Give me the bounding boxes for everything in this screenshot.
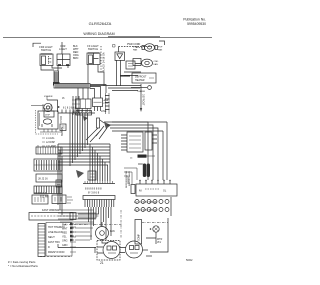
- lamp L1: [57, 54, 70, 66]
- svg-text:FAN: FAN: [154, 63, 159, 66]
- svg-text:FAN: FAN: [133, 49, 138, 52]
- dashed enclosure around dispenser block: [36, 110, 59, 134]
- bottom wire: [58, 244, 96, 248]
- small box B4: [60, 124, 66, 131]
- svg-text:BLACK 14-16 GA: BLACK 14-16 GA: [103, 52, 106, 72]
- connector pins column: [73, 96, 79, 115]
- wire color legend column: [73, 45, 79, 60]
- svg-text:BLK: BLK: [62, 224, 67, 227]
- wire from S2 down: [88, 65, 104, 87]
- corner wires under board: [124, 168, 137, 184]
- wire between motors: [120, 248, 126, 253]
- small box B5 lower left: [56, 180, 62, 187]
- control board U1: [127, 132, 152, 152]
- defrost thermostat: [131, 87, 147, 89]
- svg-text:LINE: LINE: [101, 110, 107, 113]
- svg-text:REFRIGERATOR: REFRIGERATOR: [125, 170, 128, 188]
- connector CN3 pin strip: [83, 181, 115, 207]
- svg-text:COMP: COMP: [139, 234, 141, 241]
- dashed zone separator: [100, 46, 102, 74]
- svg-text:AUG: AUG: [44, 108, 49, 111]
- circled terminal row 1: [134, 200, 169, 205]
- dash-dot wire across bottom: [64, 224, 122, 226]
- condenser wire into compressor: [146, 232, 156, 244]
- wire stub: [146, 255, 152, 257]
- water valve WV: [150, 226, 160, 232]
- svg-text:NEUT: NEUT: [48, 236, 55, 239]
- circled terminal row 2: [134, 208, 169, 213]
- wires down from connector to motors: [78, 207, 111, 240]
- terminal block TB1 (hatched): [34, 159, 62, 171]
- harness strip CN2 (hatched horizontal): [54, 84, 90, 89]
- svg-text:BRN: BRN: [73, 57, 78, 60]
- wire top-left corner bracket: [33, 43, 41, 47]
- svg-text:ADA: ADA: [104, 99, 109, 102]
- svg-text:RED: RED: [62, 232, 67, 235]
- bracket right of M1: [159, 41, 165, 45]
- left verticals down to rows: [58, 144, 62, 215]
- plug P1 (arrow symbol): [113, 45, 125, 61]
- svg-text:WIRING DIAGRAM: WIRING DIAGRAM: [83, 32, 114, 36]
- legend block (hatched bar): [38, 224, 45, 257]
- diagonal harness wires: [86, 126, 107, 142]
- triangle plug P4: [76, 170, 84, 178]
- svg-text:EVAP: EVAP: [133, 46, 139, 49]
- svg-text:D: D: [48, 246, 50, 249]
- door switch box pair: [32, 195, 48, 204]
- vertical rung connector CN4: [105, 93, 110, 114]
- svg-text:DEFROST: DEFROST: [142, 94, 145, 106]
- vertical wire bundle center: [70, 113, 88, 166]
- svg-text:J6: J6: [62, 98, 65, 100]
- wire row under block A: [40, 129, 62, 132]
- connector row J2: [36, 174, 62, 182]
- header rule: [3, 37, 212, 39]
- wires up from dispenser block: [43, 96, 51, 111]
- wire-label chevron rows: [62, 223, 94, 248]
- svg-text:P12 P8: P12 P8: [40, 196, 49, 199]
- nested corner wires right of harness: [78, 85, 106, 100]
- box B6 below: [76, 111, 92, 116]
- condenser fan motor M2: [142, 59, 153, 67]
- wire from S1 right pin: [52, 66, 62, 69]
- mid harness horizontal bundle: [58, 144, 110, 165]
- right side wire: [150, 218, 168, 252]
- svg-text:ORG: ORG: [62, 240, 68, 243]
- svg-text:OL: OL: [163, 190, 167, 193]
- svg-text:FAN: FAN: [158, 49, 163, 52]
- legend text rows: [48, 226, 65, 254]
- nested corner wires to control board: [104, 122, 163, 131]
- svg-text:L1 AUG: L1 AUG: [46, 137, 55, 140]
- svg-text:1 2 3 4 5 6 7 8 9 10: 1 2 3 4 5 6 7 8 9 10: [134, 200, 157, 204]
- lower vertical bundle: [90, 144, 110, 181]
- right edge wire: [170, 197, 172, 216]
- compressor COMP: [126, 241, 143, 258]
- thermostat block TH1: [126, 61, 135, 69]
- TB3 small box left: [131, 185, 135, 194]
- svg-text:8 8 8 8 8 8 8 8: 8 8 8 8 8 8 8 8: [85, 187, 102, 191]
- legend leader lines: [70, 227, 76, 252]
- terminal board TB3: [136, 184, 177, 196]
- wire from S1 down: [41, 66, 54, 71]
- dispenser control block A: [38, 111, 58, 129]
- svg-text:1 2 3 4 5 6 7 8 9 10: 1 2 3 4 5 6 7 8 9 10: [134, 208, 157, 212]
- svg-text:J4: J4: [130, 158, 133, 160]
- svg-text:GLRS264ZA: GLRS264ZA: [89, 21, 112, 26]
- wires turning left to legend: [58, 210, 99, 222]
- svg-text:GRN: GRN: [62, 244, 68, 247]
- svg-text:FAST TRK: FAST TRK: [48, 241, 60, 244]
- svg-text:DISP: DISP: [45, 115, 51, 117]
- svg-text:WTR: WTR: [157, 239, 163, 241]
- svg-text:MOLD: MOLD: [59, 116, 62, 123]
- svg-text:8° 3 8 6 8: 8° 3 8 6 8: [88, 191, 100, 195]
- aux fan motor M4: [96, 222, 109, 243]
- connector strip J1: [36, 146, 62, 155]
- small fuse F1: [97, 118, 100, 128]
- svg-text:LIGHT: LIGHT: [59, 47, 67, 51]
- box B3: [88, 171, 96, 180]
- vertical dash-dot right of fan: [120, 210, 122, 238]
- svg-text:FRESH FOOD: FRESH FOOD: [48, 251, 65, 254]
- svg-text:SWITCH: SWITCH: [41, 48, 51, 52]
- control board left pins: [121, 135, 127, 150]
- svg-text:50/02: 50/02: [186, 258, 193, 262]
- svg-text:VLV: VLV: [157, 242, 162, 244]
- compressor label column: [135, 220, 142, 245]
- legend bottom dashes: [40, 256, 72, 258]
- triangle plug P3: [83, 116, 88, 121]
- plug arrow P2: [104, 122, 111, 129]
- svg-text:5995409530: 5995409530: [187, 22, 206, 26]
- connector top edge with pins: [58, 110, 95, 114]
- terminal block TB2 (hatched): [34, 186, 62, 194]
- wires right verticals to terminal board: [148, 122, 167, 180]
- bracket left of M5: [95, 247, 103, 253]
- svg-text:FAST WIRING: FAST WIRING: [42, 208, 59, 212]
- svg-text:8 1 8 1 8 8 1: 8 1 8 1 8 8 1: [63, 108, 76, 110]
- capacitor C1 (dark capsules): [138, 164, 150, 178]
- svg-text:WHT: WHT: [62, 228, 68, 231]
- dash-dot wire: [142, 222, 168, 224]
- switch S1: [40, 54, 53, 66]
- control board right pins: [152, 135, 157, 143]
- svg-text:SWITCH: SWITCH: [88, 47, 98, 51]
- TB3 top pins: [140, 180, 170, 184]
- wire stub above L1: [61, 42, 63, 54]
- terminal strip TB4: [29, 213, 76, 221]
- control box B2: [76, 99, 92, 112]
- svg-text:LINE BLACK: LINE BLACK: [48, 231, 63, 234]
- connector CN1 vertical (hatched): [53, 71, 60, 86]
- svg-text:21: 21: [100, 261, 104, 265]
- svg-text:L2 DISP: L2 DISP: [46, 141, 55, 144]
- switch S2: [87, 53, 100, 65]
- svg-text:PTR: PTR: [104, 103, 109, 105]
- terminal rows with labels: [46, 137, 56, 148]
- svg-text:J8 J2 J6: J8 J2 J6: [38, 177, 48, 181]
- svg-text:WATER VALVE: WATER VALVE: [128, 170, 131, 186]
- svg-text:CND: CND: [154, 61, 159, 63]
- svg-text:M: M: [139, 189, 142, 193]
- door switch box 2: [52, 195, 73, 204]
- svg-text:HEATER: HEATER: [135, 79, 145, 82]
- svg-text:Publication No.: Publication No.: [183, 18, 206, 22]
- svg-text:EVP: EVP: [158, 47, 163, 49]
- svg-text:ICEMKR: ICEMKR: [44, 96, 53, 98]
- wire arrow down: [140, 84, 142, 108]
- motor M5: [103, 242, 120, 259]
- dashed wire to right of plug: [119, 46, 153, 48]
- svg-text:YEL: YEL: [62, 236, 67, 239]
- wires from TH1 to right: [124, 64, 141, 76]
- condenser fan resistor block: [133, 59, 141, 66]
- defrost heater block HR1: [132, 73, 156, 83]
- wire right of compressor: [143, 249, 149, 251]
- svg-text:* = Non-Illustrated Parts: * = Non-Illustrated Parts: [8, 264, 38, 268]
- legend box border: [46, 223, 72, 257]
- wire from L1 down: [58, 66, 68, 72]
- run capacitor box: [97, 241, 120, 261]
- relay K1: [93, 98, 103, 111]
- svg-text:B8 8B8 18 8: B8 8B8 18 8: [34, 193, 47, 195]
- wire pair down from plug: [117, 60, 121, 86]
- icemaker motor M3: [31, 100, 59, 112]
- evaporator fan motor M1: [136, 44, 158, 52]
- svg-text:L3 LAMP: L3 LAMP: [46, 145, 56, 148]
- long harness wires to right: [90, 86, 141, 91]
